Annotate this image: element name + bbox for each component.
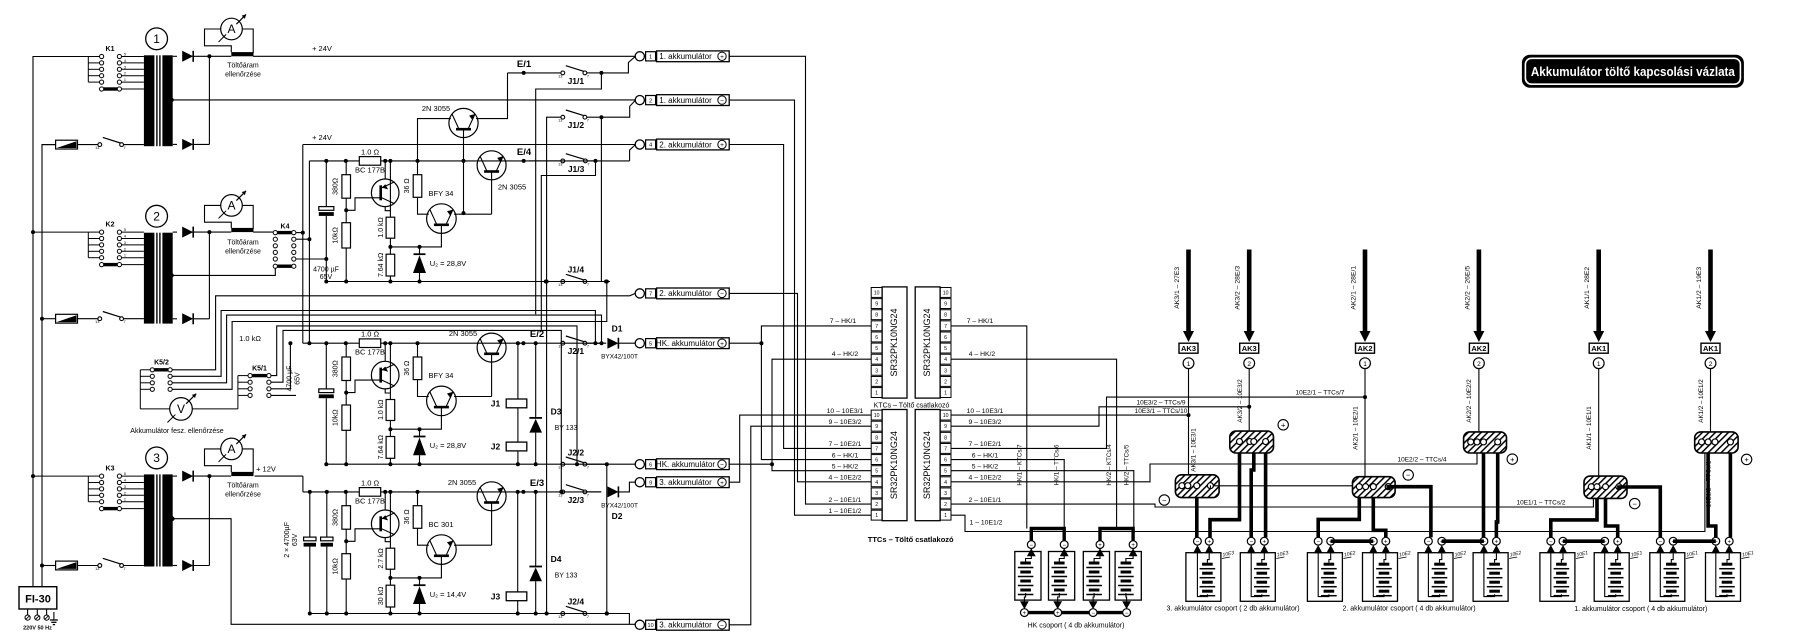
KTCs right half body xyxy=(915,287,940,398)
svg-text:2N 3055: 2N 3055 xyxy=(422,104,450,113)
svg-text:2: 2 xyxy=(944,379,947,385)
TTCs right half pin squares xyxy=(940,410,951,420)
J1/2 left wire xyxy=(547,117,561,613)
svg-text:10 – 10E3/1: 10 – 10E3/1 xyxy=(827,408,864,415)
svg-text:BYX42/100T: BYX42/100T xyxy=(601,503,638,510)
transistor BC 177B (block 3) xyxy=(371,510,399,538)
svg-text:13: 13 xyxy=(95,146,99,150)
svg-text:J1: J1 xyxy=(491,399,501,409)
svg-text:A: A xyxy=(227,199,235,213)
switch J1/3 xyxy=(529,160,561,162)
svg-text:K1: K1 xyxy=(106,46,115,53)
svg-text:HK/2 – KTCs/4: HK/2 – KTCs/4 xyxy=(1106,444,1113,486)
svg-text:3: 3 xyxy=(944,368,947,374)
regulator block 1 bottom rail xyxy=(326,281,606,283)
svg-text:V: V xyxy=(177,402,185,416)
svg-text:−: − xyxy=(720,291,724,298)
AK3/1 drop wire xyxy=(1188,369,1190,475)
terminal 6 'HK. akkumul&#225;tor (&#8722;)' xyxy=(635,460,644,469)
svg-text:K5/2: K5/2 xyxy=(154,360,169,367)
transformer T3 windings and core xyxy=(144,474,155,566)
zener diode (block 1) xyxy=(419,247,421,254)
AK2/2 drop wire xyxy=(1478,369,1480,432)
AK1 circled 2 xyxy=(1705,358,1716,369)
svg-text:AK1/2 – 19E3: AK1/2 – 19E3 xyxy=(1696,267,1703,309)
svg-text:K2: K2 xyxy=(106,222,115,229)
resistor 380 Ohm (block 1) xyxy=(345,161,347,175)
svg-text:SR32PK10NG24: SR32PK10NG24 xyxy=(889,308,899,376)
svg-text:−: − xyxy=(1249,540,1253,546)
TTCs right half body xyxy=(915,410,940,521)
transistor BC 301 (block 3) xyxy=(427,535,457,565)
svg-text:SR32PK10NG24: SR32PK10NG24 xyxy=(889,431,899,499)
svg-text:−: − xyxy=(1659,540,1663,546)
T2 rectifier diode top xyxy=(173,231,177,233)
T3 primary switch xyxy=(98,564,102,568)
svg-text:J2/3: J2/3 xyxy=(568,495,585,505)
resistor 1.0 Ohm (block 2) xyxy=(359,339,380,348)
K4 feed vertical from block1 rail xyxy=(296,238,310,240)
switch J1/4 on block1 bottom rail xyxy=(561,280,565,284)
svg-text:−: − xyxy=(1030,543,1034,549)
svg-text:AK2/2 – 26E/5: AK2/2 – 26E/5 xyxy=(1464,266,1471,310)
HK battery 4 terminals xyxy=(1129,541,1137,549)
wire KTC4 to HK/2 (right) xyxy=(951,359,1117,528)
svg-text:AK2/1 – 28E/1: AK2/1 – 28E/1 xyxy=(1351,266,1358,310)
svg-text:−: − xyxy=(1427,540,1431,546)
2. akkumulator csoport battery 2 internal wires xyxy=(1373,553,1384,596)
AK2 circled 2 xyxy=(1474,358,1485,369)
3. akkumulator csoport battery 2 feed arrows xyxy=(1247,545,1256,553)
regulator block 1 top rail xyxy=(309,160,594,162)
svg-text:+: + xyxy=(1510,455,1515,464)
HK battery 2 internal wires xyxy=(1059,556,1064,562)
2. akkumulator csoport battery 2 terminals xyxy=(1369,537,1377,545)
svg-text:7 – 10E2/1: 7 – 10E2/1 xyxy=(829,441,862,448)
1. group terminal-level links (thick) xyxy=(1563,539,1605,543)
HK battery 3 cell stack xyxy=(1089,562,1100,565)
2. akkumulator csoport battery 3 box xyxy=(1418,553,1453,602)
svg-text:13: 13 xyxy=(558,345,562,349)
svg-text:1: 1 xyxy=(124,78,126,82)
svg-text:+: + xyxy=(1384,540,1388,546)
T1 primary fuse xyxy=(56,140,78,149)
junction dots on mains buses xyxy=(31,230,35,234)
bus terminal10 to TTC pin9 xyxy=(729,426,871,625)
svg-text:8: 8 xyxy=(944,435,947,441)
svg-text:2: 2 xyxy=(875,379,878,385)
svg-text:2.7 kΩ: 2.7 kΩ xyxy=(378,548,385,568)
resistor 7.64 k&#937; (block 2) xyxy=(389,421,391,437)
1. akkumulator csoport battery 1 feed arrows xyxy=(1546,545,1555,553)
svg-text:AK2: AK2 xyxy=(1357,344,1372,353)
AK3 connector box 2 xyxy=(1240,343,1259,353)
HK battery 3 terminals xyxy=(1096,541,1104,549)
HK battery 2 cell stack xyxy=(1054,562,1065,565)
svg-text:220V 50 Hz: 220V 50 Hz xyxy=(23,626,52,632)
HK battery 1 internal wires xyxy=(1026,556,1032,562)
K5/1 closed contact bar on row1 xyxy=(252,374,267,377)
svg-text:2. akkumulátor csoport ( 4 db: 2. akkumulátor csoport ( 4 db akkumuláto… xyxy=(1342,606,1475,613)
svg-text:1.0 kΩ: 1.0 kΩ xyxy=(378,399,385,419)
2. akkumulator csoport battery 4 box xyxy=(1473,553,1508,602)
svg-text:J3: J3 xyxy=(491,592,501,602)
svg-text:A: A xyxy=(227,442,235,456)
diode D4 xyxy=(535,492,537,567)
svg-text:AK3/1 – 27E3: AK3/1 – 27E3 xyxy=(1174,267,1181,309)
svg-text:SR32PK10NG24: SR32PK10NG24 xyxy=(922,308,932,376)
terminal 2 rail and switch J1/2 xyxy=(561,115,565,119)
svg-text:7: 7 xyxy=(649,292,652,298)
2. akkumulator csoport battery 1 internal wires xyxy=(1318,553,1329,596)
svg-text:AK3/1 – 10E3/1: AK3/1 – 10E3/1 xyxy=(1191,428,1198,472)
2. akkumulator csoport battery 3 terminals xyxy=(1425,537,1433,545)
ammeter A1 meter xyxy=(221,18,243,40)
svg-text:−: − xyxy=(1316,540,1320,546)
svg-text:K4: K4 xyxy=(281,224,290,231)
svg-text:1.0 Ω: 1.0 Ω xyxy=(361,478,380,487)
regulator block 2 bottom rail xyxy=(326,463,606,465)
wire TTC7 to AK2/1 (10E2/1) xyxy=(951,397,1365,448)
K5/2 sense wire 1 (to terminal 7) xyxy=(172,293,635,369)
svg-text:BFY 34: BFY 34 xyxy=(429,371,454,380)
svg-text:7: 7 xyxy=(587,466,589,470)
svg-text:2: 2 xyxy=(1247,361,1251,368)
3. akkumulator csoport battery 2 terminals xyxy=(1247,537,1255,545)
2. akkumulator csoport battery 4 feed arrows xyxy=(1480,545,1489,553)
svg-text:2 – 10E1/1: 2 – 10E1/1 xyxy=(969,497,1002,504)
AK1/1 feed arrow xyxy=(1596,250,1601,333)
HK battery 2 terminals xyxy=(1060,541,1068,549)
1. akkumulator csoport battery 2 box xyxy=(1594,553,1629,602)
resistor 1.0 k&#937; (block 1) xyxy=(389,161,391,217)
T1 diode output vertical xyxy=(208,56,210,144)
K5/1 sense wire 4 xyxy=(271,394,296,396)
svg-text:380Ω: 380Ω xyxy=(333,178,340,195)
AK3/2 thick wire to battery2 right xyxy=(1264,453,1268,538)
svg-text:6: 6 xyxy=(875,458,878,464)
AK1/2 thick wire to battery4 right xyxy=(1729,453,1733,537)
resistor 10k&#937; (block 1) xyxy=(345,198,347,223)
svg-text:5: 5 xyxy=(944,469,947,475)
wire TTC9 to AK3/2 (10E3/2) xyxy=(951,407,1249,426)
svg-text:Akkumulátor töltő kapcsolási v: Akkumulátor töltő kapcsolási vázlata xyxy=(1531,65,1736,79)
block 2 bottom rail to J2/2 and terminal 6 xyxy=(561,462,565,466)
transformer T1 windings and core xyxy=(144,55,155,146)
2. group terminal-level links (thick) xyxy=(1331,539,1374,543)
AK1/1 drop wire xyxy=(1598,369,1600,477)
svg-text:7.64 kΩ: 7.64 kΩ xyxy=(378,253,385,277)
svg-text:J2/1: J2/1 xyxy=(568,346,585,356)
diode D3 xyxy=(535,343,537,418)
svg-text:1: 1 xyxy=(944,391,947,397)
1. akkumulator csoport battery 4 terminals xyxy=(1712,537,1720,545)
svg-text:Töltőáram: Töltőáram xyxy=(227,240,259,247)
svg-text:+: + xyxy=(1727,540,1731,546)
terminal block AK3/1 (hatched) xyxy=(1175,475,1219,498)
svg-text:3: 3 xyxy=(153,451,160,465)
AK3 connector box 1 xyxy=(1179,343,1198,353)
resistor 380 Ohm (block 3) xyxy=(345,492,347,506)
svg-text:9: 9 xyxy=(944,302,947,308)
transistor BC 177B (block 1) xyxy=(371,179,399,207)
1. akkumulator csoport battery 2 feed arrows xyxy=(1600,545,1609,553)
J1/4 right wire xyxy=(587,281,610,283)
svg-text:4 – HK/2: 4 – HK/2 xyxy=(969,351,996,358)
svg-text:+ 24V: + 24V xyxy=(312,133,332,142)
switch J2/3 xyxy=(561,490,565,494)
svg-text:9: 9 xyxy=(649,480,652,486)
svg-text:2. akkumulátor: 2. akkumulátor xyxy=(659,140,712,149)
svg-text:7: 7 xyxy=(587,74,589,78)
svg-text:J2: J2 xyxy=(491,442,501,452)
svg-text:10E2/1 – TTCs/7: 10E2/1 – TTCs/7 xyxy=(1295,390,1344,397)
BFY 34 wiring (block 1) xyxy=(418,197,429,214)
svg-text:−: − xyxy=(1062,543,1066,549)
svg-text:13: 13 xyxy=(558,615,562,619)
mains left bus wire (L) xyxy=(33,57,99,587)
svg-text:+ 24V: + 24V xyxy=(312,44,332,53)
AK1/2 plus sign xyxy=(1741,454,1751,464)
svg-text:−: − xyxy=(1162,496,1167,505)
svg-text:13: 13 xyxy=(558,74,562,78)
svg-text:AK3: AK3 xyxy=(1181,344,1196,353)
svg-text:2 × 4700µF: 2 × 4700µF xyxy=(284,522,291,558)
svg-text:10E3/2 – TTCs/9: 10E3/2 – TTCs/9 xyxy=(1136,399,1185,406)
svg-text:2N 3055: 2N 3055 xyxy=(498,183,526,192)
svg-text:7: 7 xyxy=(587,162,589,166)
svg-text:D4: D4 xyxy=(551,554,562,564)
svg-text:HK/1 – TTCs/6: HK/1 – TTCs/6 xyxy=(1054,444,1061,485)
regulator block 2 top rail xyxy=(303,342,606,344)
svg-text:BC 177B: BC 177B xyxy=(355,496,385,505)
svg-text:6: 6 xyxy=(944,458,947,464)
wire KTC7 to HK/1 (right) xyxy=(951,326,1027,529)
svg-text:E/2: E/2 xyxy=(530,329,544,340)
AK3/1 feed arrow xyxy=(1186,250,1191,333)
1. akkumulator csoport battery 1 terminals xyxy=(1547,537,1555,545)
2. akkumulator csoport battery 4 cell stack xyxy=(1489,563,1500,566)
resistor 1.0 Ohm (block 3) xyxy=(359,488,380,497)
AK3/2 drop wire xyxy=(1248,369,1250,432)
1. akkumulator csoport battery 4 internal wires xyxy=(1716,553,1727,596)
svg-text:4: 4 xyxy=(124,235,126,239)
HK battery 2 box xyxy=(1049,552,1075,601)
AK3/1 to AK2 link wire xyxy=(1209,485,1211,489)
transformer T3 circled number xyxy=(146,447,168,469)
svg-text:2: 2 xyxy=(124,72,126,76)
K4 row5 wire to capacitor C1 line xyxy=(296,258,326,260)
AK2/1 thick wire to battery2 right xyxy=(1373,498,1386,538)
svg-text:30 kΩ: 30 kΩ xyxy=(378,587,385,605)
regulator block 3 left vertical xyxy=(302,476,304,492)
HK battery 1 box xyxy=(1015,552,1041,601)
bus terminal6 to KTC pin4 and TTC pin5 xyxy=(729,359,871,464)
K5/1 sense wire 3 xyxy=(271,343,290,389)
1. akkumulator csoport battery 2 cell stack xyxy=(1610,563,1621,566)
AK1/2 thick wire to battery4 left xyxy=(1708,453,1716,537)
regulator block 3 top rail xyxy=(303,491,601,493)
T2 primary fuse xyxy=(56,314,78,323)
T1 rectifier diode top xyxy=(173,55,177,57)
AK1 connector box 1 xyxy=(1589,343,1608,353)
ammeter A2 wiring box xyxy=(205,205,232,228)
svg-text:4: 4 xyxy=(875,357,878,363)
svg-text:9: 9 xyxy=(875,302,878,308)
svg-text:1: 1 xyxy=(153,32,160,46)
K5/2 left bus to voltmeter xyxy=(139,370,141,409)
svg-text:13: 13 xyxy=(558,119,562,123)
T2 rectifier diode bottom xyxy=(173,318,177,320)
T1 rectifier diode bottom xyxy=(173,143,177,145)
bus terminal4 to TTC pin7 xyxy=(729,145,871,449)
svg-text:1: 1 xyxy=(124,254,126,258)
BC 177B collector/emitter/base wires (block 1) xyxy=(384,161,386,179)
wire TTC10 to AK3/1 (10E3/1) xyxy=(951,414,1189,416)
1. akkumulator csoport battery 1 cell stack xyxy=(1556,563,1567,566)
svg-text:5: 5 xyxy=(124,228,126,232)
switch J2/4 on block3 bottom rail xyxy=(561,612,565,616)
svg-text:8: 8 xyxy=(944,313,947,319)
transistor BFY 34 (block 2) xyxy=(427,386,457,416)
svg-text:5 – HK/2: 5 – HK/2 xyxy=(832,464,859,471)
svg-text:2: 2 xyxy=(649,98,652,104)
HK battery 4 internal wires xyxy=(1126,556,1133,562)
2. akkumulator csoport battery 1 cell stack xyxy=(1324,563,1335,566)
svg-text:BY 133: BY 133 xyxy=(555,573,578,580)
2. akkumulator csoport battery 4 terminals xyxy=(1480,537,1488,545)
svg-text:J1/3: J1/3 xyxy=(568,164,585,174)
resistor 36 Ohm (block 3) xyxy=(417,492,419,506)
svg-text:−: − xyxy=(1406,471,1411,480)
3. akkumulator csoport battery 1 feed arrows xyxy=(1193,545,1202,553)
1. akkumulator csoport battery 3 box xyxy=(1650,553,1685,602)
AK3/2 feed arrow xyxy=(1247,250,1252,333)
svg-text:7: 7 xyxy=(587,119,589,123)
svg-text:K5/1: K5/1 xyxy=(252,365,267,372)
resistor 30 k&#937; (block 3) xyxy=(389,569,391,585)
svg-text:+: + xyxy=(1207,540,1211,546)
AK1/1 thick wire to battery2 right xyxy=(1606,498,1618,537)
T2 primary switch xyxy=(98,317,102,321)
K1 row1 wire to mains xyxy=(88,56,99,58)
svg-text:5: 5 xyxy=(875,346,878,352)
HK battery 3 box xyxy=(1083,552,1109,601)
svg-text:−: − xyxy=(720,98,724,105)
1. akkumulator csoport battery 4 cell stack xyxy=(1722,563,1733,566)
svg-text:10E1/1 – TTCs/2: 10E1/1 – TTCs/2 xyxy=(1516,500,1565,507)
transistor 2N 3055 output (block 1) xyxy=(477,151,506,180)
svg-text:E/4: E/4 xyxy=(517,147,532,158)
KTCs right half pin squares xyxy=(940,288,951,298)
svg-text:4: 4 xyxy=(124,479,126,483)
terminal block AK2/2 (hatched) xyxy=(1464,432,1507,453)
svg-text:13: 13 xyxy=(558,283,562,287)
ammeter A1 rail +24V xyxy=(209,55,231,57)
svg-text:13: 13 xyxy=(95,320,99,324)
AK3/1 elbow from AK3/2 xyxy=(1210,453,1240,538)
svg-text:+: + xyxy=(720,341,724,348)
svg-text:7: 7 xyxy=(587,283,589,287)
svg-text:10: 10 xyxy=(943,290,949,296)
K4 feed vertical from +24V rail xyxy=(296,232,303,234)
svg-text:J1/2: J1/2 xyxy=(568,120,585,130)
AK2/1 thick wire to battery3 left xyxy=(1388,487,1431,538)
svg-text:−: − xyxy=(1549,540,1553,546)
1. akkumulator csoport battery 3 terminals xyxy=(1656,537,1664,545)
svg-text:D2: D2 xyxy=(612,511,623,521)
resistor 380 Ohm (block 2) xyxy=(345,343,347,357)
svg-text:3: 3 xyxy=(875,368,878,374)
bus terminal5 to KTC pin7 and TTC pin6 xyxy=(729,326,871,343)
svg-text:+: + xyxy=(720,142,724,149)
svg-text:6: 6 xyxy=(649,462,652,468)
svg-text:+: + xyxy=(1263,540,1267,546)
svg-text:AK3: AK3 xyxy=(1242,344,1257,353)
svg-text:7: 7 xyxy=(587,345,589,349)
resistor 10k&#937; (block 3) xyxy=(345,529,347,554)
AK1/2 drop wire xyxy=(1710,369,1712,432)
AK2/1 minus sign xyxy=(1403,470,1413,480)
svg-text:7: 7 xyxy=(875,446,878,452)
K5/1 sense wire 1 (to J2/2 row) xyxy=(271,326,577,464)
svg-text:2: 2 xyxy=(875,502,878,508)
K4 closed top contact xyxy=(277,231,291,234)
svg-text:2: 2 xyxy=(1709,361,1713,368)
E/3 node xyxy=(521,490,525,494)
AK3/2 plus sign xyxy=(1278,420,1288,430)
3. akkumulator csoport battery 2 box xyxy=(1240,553,1275,602)
svg-text:HK. akkumulátor: HK. akkumulátor xyxy=(656,460,715,469)
svg-text:BFY 34: BFY 34 xyxy=(429,189,454,198)
HK battery 1 terminals xyxy=(1027,541,1035,549)
svg-text:1.0 Ω: 1.0 Ω xyxy=(361,147,380,156)
svg-text:2: 2 xyxy=(124,247,126,251)
svg-text:10E3/1 – TTCs/10: 10E3/1 – TTCs/10 xyxy=(1135,408,1188,415)
svg-text:7 – 10E2/1: 7 – 10E2/1 xyxy=(969,441,1002,448)
svg-text:Töltőáram: Töltőáram xyxy=(227,63,259,70)
1. akkumulator csoport battery 1 internal wires xyxy=(1551,553,1562,596)
T1 primary switch xyxy=(98,143,102,147)
svg-text:10: 10 xyxy=(648,623,654,629)
svg-text:BC 177B: BC 177B xyxy=(355,348,385,357)
AK2 circled 1 xyxy=(1360,358,1371,369)
svg-text:13: 13 xyxy=(95,567,99,571)
ammeter A2 shunt bar xyxy=(231,228,253,232)
1. akkumulator csoport battery 4 feed arrows xyxy=(1711,545,1720,553)
svg-text:1: 1 xyxy=(649,55,652,61)
svg-text:A: A xyxy=(227,22,235,36)
svg-text:+: + xyxy=(1056,611,1060,617)
diode D2 xyxy=(607,486,618,497)
svg-text:1. akkumulátor: 1. akkumulátor xyxy=(659,52,712,61)
svg-text:HK. akkumulátor: HK. akkumulátor xyxy=(656,339,715,348)
svg-text:10: 10 xyxy=(874,413,880,419)
svg-text:−: − xyxy=(1196,540,1200,546)
HK group top bus 1 (thick) xyxy=(1031,529,1064,542)
FI-30 residual current device xyxy=(19,587,57,609)
AK3 circled 1 xyxy=(1183,358,1194,369)
T1 center tap wire to terminal 2 rail xyxy=(169,98,174,103)
mains left bus wire (N) xyxy=(42,145,56,587)
1. akkumulator csoport battery 4 box xyxy=(1706,553,1741,602)
svg-text:6 – HK/1: 6 – HK/1 xyxy=(832,452,859,459)
K5/2 sense wire 2 (to E/2 rail) xyxy=(172,311,595,377)
svg-text:Akkumulátor fesz. ellenőrzése: Akkumulátor fesz. ellenőrzése xyxy=(130,428,223,435)
HK battery 1 cell stack xyxy=(1020,562,1031,565)
svg-text:3: 3 xyxy=(124,65,126,69)
svg-text:380Ω: 380Ω xyxy=(333,509,340,526)
